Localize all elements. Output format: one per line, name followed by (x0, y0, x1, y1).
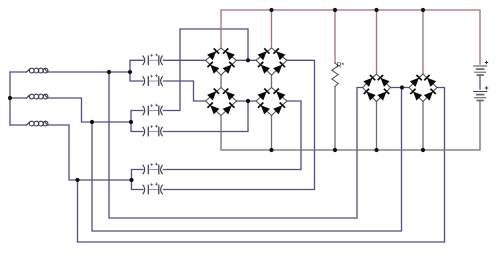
wire: red drop to R* top (334, 10, 336, 63)
bridge U1 outline (206, 48, 237, 75)
wire: U1 bottom to U3 top (220, 75, 222, 88)
battery V1 (474, 61, 488, 75)
wire: R* bottom to bus (334, 87, 336, 150)
junction dot red bus U2 (269, 8, 273, 12)
wire: cap row A bottom to bridge U3 left (164, 81, 206, 101)
wire: cap bracket B (131, 111, 143, 132)
inductor L3 (27, 121, 48, 126)
U6 diode D1 (410, 75, 422, 87)
capacitor pair C5-C6 (143, 104, 162, 115)
junction dot gray bus U5 (374, 148, 378, 152)
junction dot red bus U5 (374, 8, 378, 12)
junction dot gray bus R* (333, 148, 337, 152)
wire: U6 bottom to bus (422, 102, 424, 151)
wire: cap row A top to bridge U1 left (164, 59, 206, 61)
U4 diode D4 (273, 102, 285, 114)
wire: cap bracket A (130, 60, 143, 81)
junction dot U3-U4 node (246, 99, 250, 103)
U6 diode D4 (424, 89, 436, 101)
wire: row 2 coil to cap bracket B (step down) (48, 98, 132, 122)
wire: U5 right to U6 left (391, 87, 410, 89)
wire: cap row C bottom to bridge U2 right (164, 60, 315, 189)
U3 diode D1 (207, 88, 219, 100)
wire: red drop to U5 top (376, 10, 378, 74)
bridge U2 outline (256, 48, 287, 75)
U4 diode D3 (258, 102, 270, 114)
wire: phase B return (x=92 down, y=231 across, up to U5/U6 mid node) (92, 88, 402, 232)
wire: phase A return (x=109 down, y=218 across, up to bridge U5 left) (109, 72, 363, 218)
capacitor pair C1-C2 (143, 54, 162, 65)
red positive bus (221, 10, 480, 64)
wire: U4 bottom to bus (271, 116, 273, 151)
wire: red drop to U2 top (271, 10, 273, 48)
U1 diode D4 (223, 62, 235, 74)
U3 diode D4 (223, 102, 235, 114)
U3 diode D2 (223, 88, 235, 100)
gray negative bus (221, 101, 480, 150)
U1 diode D2 (223, 48, 235, 60)
wire: U2 bottom to U4 top (271, 75, 273, 88)
bridge U3 outline (206, 88, 237, 116)
wire: cap row B top over-loop to U1/U2 mid node (164, 29, 249, 111)
U4 diode D2 (273, 88, 285, 100)
U6 diode D3 (410, 89, 422, 101)
junction dot red bus R* (333, 8, 337, 12)
junction dot bracket C (129, 178, 133, 182)
junction dot gray bus U6 (421, 148, 425, 152)
capacitor pair C11-C12 (143, 183, 162, 194)
battery V2 (474, 87, 488, 101)
capacitor pair C3-C4 (143, 75, 162, 86)
wire: row 1 coil to cap bracket A (48, 71, 131, 73)
wire: U3 right to U4 left (237, 100, 257, 102)
U4 diode D1 (258, 88, 270, 100)
U1 diode D3 (207, 62, 219, 74)
junction dot left bus (8, 96, 12, 100)
wire: row 1 lead from bus to coil (10, 71, 27, 73)
U5 diode D3 (364, 89, 376, 101)
inductor L1 (27, 68, 48, 73)
resistor R* (332, 63, 338, 87)
junction dot gray bus U4 (269, 148, 273, 152)
U2 diode D4 (273, 62, 285, 74)
inductor L2 (27, 94, 48, 99)
U5 diode D2 (378, 75, 390, 87)
wire: cap row C top to bridge U4 right (164, 101, 302, 170)
U3 diode D3 (207, 102, 219, 114)
wire: U5 bottom to bus (376, 102, 378, 151)
junction dot row3 branch (75, 178, 79, 182)
junction dot bracket A (128, 70, 132, 74)
battery V1-V2 link (479, 76, 481, 90)
bridge U6 outline (409, 74, 437, 102)
junction dot red bus U6 (421, 8, 425, 12)
junction dot U5-U6 node (400, 85, 404, 89)
U5 diode D1 (363, 75, 375, 87)
junction dot row1 branch (107, 70, 111, 74)
wire: phase C return (x=77.5 down, y=242 across, up to bridge U6 right) (78, 88, 445, 243)
U6 diode D2 (424, 75, 436, 87)
junction dot bracket B (129, 120, 133, 124)
wire: row 3 lead from bus to coil (10, 124, 27, 126)
U2 diode D3 (258, 62, 270, 74)
capacitor pair C9-C10 (143, 163, 162, 174)
svg-text:R*: R* (337, 63, 345, 70)
bridge U4 outline (256, 88, 287, 116)
wire: row 2 lead from bus to coil (10, 97, 27, 99)
wire: left phase bus vertical (9, 72, 11, 125)
U1 diode D1 (207, 48, 219, 60)
wire: cap bracket C (132, 170, 144, 190)
U2 diode D1 (258, 48, 270, 60)
wire: row 3 coil to cap bracket C (step down) (48, 125, 132, 180)
wire: red drop to U6 top (422, 10, 424, 74)
junction dot U1-U2 node (246, 58, 250, 62)
bridge U5 outline (363, 74, 391, 102)
wire: cap row B bottom to U3/U4 mid node (164, 101, 249, 132)
junction dot row2 branch (90, 120, 94, 124)
wire: U1 right to U2 left (237, 59, 257, 61)
U5 diode D4 (377, 89, 389, 101)
U2 diode D2 (273, 48, 285, 60)
capacitor pair C7-C8 (143, 125, 162, 136)
